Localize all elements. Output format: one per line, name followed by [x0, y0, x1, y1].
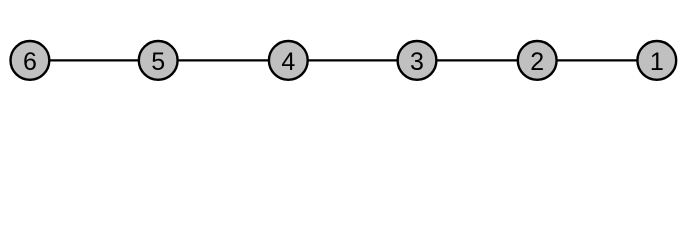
node 3	[398, 41, 437, 80]
node 4	[269, 41, 308, 80]
node 5	[139, 41, 178, 80]
node 1	[637, 41, 676, 80]
wire edge 2-1	[537, 59, 657, 61]
svg-text:2: 2	[530, 48, 544, 76]
node 6	[11, 41, 50, 80]
wire edge 5-4	[158, 59, 288, 61]
wire edge 4-3	[288, 59, 417, 61]
svg-text:4: 4	[281, 48, 295, 76]
svg-text:1: 1	[650, 48, 664, 76]
svg-text:6: 6	[23, 48, 37, 76]
svg-text:5: 5	[151, 48, 165, 76]
svg-text:3: 3	[410, 48, 424, 76]
wire edge 6-5	[30, 59, 158, 61]
node 2	[518, 41, 557, 80]
wire edge 3-2	[417, 59, 537, 61]
